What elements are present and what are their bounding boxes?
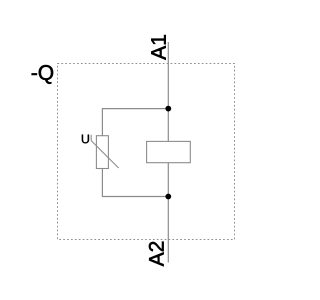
terminal label A1 (151, 35, 165, 60)
wire branch left lower (101, 169, 103, 197)
enclosure -Q dashed outline (58, 64, 235, 240)
terminal label A2 (149, 242, 164, 267)
label U (82, 135, 89, 144)
wire branch bottom (102, 196, 168, 198)
junction node bottom (A2 to branch) (165, 194, 171, 200)
label -Q (32, 65, 53, 84)
wire A2 lead (167, 163, 169, 263)
wire A1 lead (167, 42, 169, 141)
varistor body (96, 136, 108, 169)
wire branch left upper (101, 109, 103, 136)
varistor diagonal stroke (91, 141, 118, 168)
junction node top (A1 to branch) (165, 106, 171, 112)
varistor U tick (90, 135, 92, 141)
wire branch top (102, 108, 168, 110)
coil K1 (147, 141, 191, 162)
